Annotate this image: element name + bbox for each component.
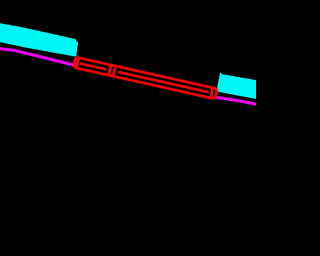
magenta way line right segment bbox=[217, 97, 259, 104]
bridge deck black fill bbox=[73, 57, 217, 99]
left cyan road band bbox=[0, 23, 78, 57]
right inner bar bbox=[211, 88, 213, 98]
bridge casing group bbox=[73, 57, 217, 99]
middle joint bar B bbox=[113, 66, 115, 76]
right cyan road band bbox=[216, 74, 258, 100]
centerline segment 2 bbox=[118, 72, 208, 92]
right band corner notch bbox=[220, 73, 222, 75]
magenta way line left segment bbox=[0, 48, 77, 66]
left inner bar bbox=[76, 58, 78, 68]
magenta way bright tip at bridge start bbox=[70, 63, 74, 67]
middle joint bar A bbox=[109, 65, 111, 75]
bridge casing rounded outline bbox=[73, 57, 217, 99]
centerline segment 1 bbox=[80, 63, 106, 69]
